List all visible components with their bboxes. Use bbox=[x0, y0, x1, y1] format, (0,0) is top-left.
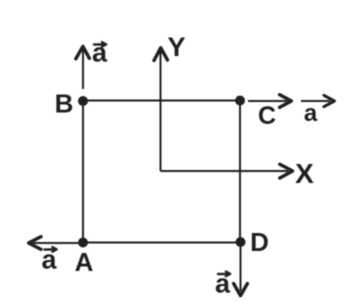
vector arrow at A (left) bbox=[33, 242, 81, 244]
svg-text:C: C bbox=[258, 102, 276, 130]
X axis bbox=[161, 170, 289, 172]
svg-text:a: a bbox=[41, 245, 57, 275]
svg-text:a: a bbox=[304, 100, 318, 127]
corner dot D bbox=[236, 237, 246, 247]
X axis arrowhead bbox=[280, 164, 293, 178]
svg-text:a: a bbox=[92, 38, 108, 68]
corner dot A bbox=[78, 238, 88, 248]
vector arrow at D (down) bbox=[240, 247, 242, 291]
corner dot B bbox=[78, 96, 88, 106]
svg-text:B: B bbox=[55, 89, 74, 119]
corner dot C bbox=[235, 96, 245, 106]
vector arrow at C (right) bbox=[248, 100, 287, 102]
svg-text:a: a bbox=[215, 269, 231, 299]
vector arrow at B (up) bbox=[82, 50, 84, 89]
arrow over a label at D bbox=[217, 273, 229, 275]
arrow over a label at A bbox=[44, 248, 56, 250]
Y axis arrowhead bbox=[154, 48, 168, 61]
arrow over a label at C bbox=[301, 100, 330, 102]
arrow over a label at B bbox=[93, 43, 105, 45]
svg-text:Y: Y bbox=[167, 32, 185, 62]
square ABCD bbox=[83, 101, 240, 243]
svg-text:D: D bbox=[250, 227, 269, 257]
svg-text:A: A bbox=[75, 247, 94, 277]
Y axis bbox=[160, 51, 162, 171]
svg-text:X: X bbox=[295, 158, 314, 189]
